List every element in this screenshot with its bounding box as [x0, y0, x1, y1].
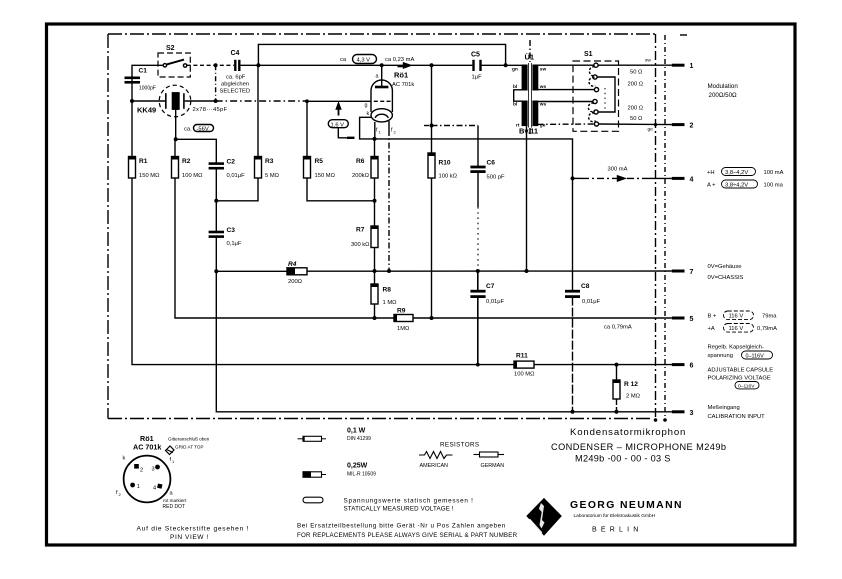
svg-text:R8: R8 [383, 287, 392, 294]
wire capsule right to grid dash-dot [185, 100, 216, 102]
svg-text:R2: R2 [182, 158, 191, 165]
svg-text:ca.: ca. [184, 127, 192, 133]
svg-text:Rö1: Rö1 [394, 71, 408, 80]
svg-text:A +: A + [707, 183, 716, 189]
wire down to R2 [174, 139, 176, 156]
svg-text:ge: ge [540, 124, 546, 129]
resistor R6 [371, 157, 378, 179]
wire down to R1 [131, 101, 133, 157]
capacitor C4 [235, 60, 239, 71]
svg-text:300 mA: 300 mA [608, 167, 628, 173]
oval 116V dashed lower [724, 324, 754, 333]
socket pins [134, 464, 139, 469]
transformer axis dash-dot [529, 40, 531, 62]
housing boundary dash-dot top [108, 33, 655, 35]
svg-text:50 Ω: 50 Ω [630, 116, 643, 122]
terminal 4 wire dash-dot with arrow [571, 176, 575, 180]
terminal 2 bar [672, 123, 685, 126]
capacitor C3 [209, 232, 224, 237]
svg-text:Regelb. Kapselgleich-: Regelb. Kapselgleich- [708, 345, 764, 351]
node R10/C6 dash junction [430, 124, 434, 128]
node R12 bottom [615, 410, 619, 414]
dash wire to C6 [424, 125, 432, 127]
svg-text:DIN 41299: DIN 41299 [347, 436, 371, 442]
svg-text:sw: sw [540, 68, 547, 73]
node C1-capsule junction [130, 99, 134, 103]
wire R3 top column [257, 65, 259, 156]
node S2/C4 wire drop [214, 63, 218, 67]
housing top-right stub dash [680, 34, 687, 36]
wire R3 bottom link [216, 178, 258, 201]
tube Ro1 envelope [371, 80, 392, 112]
node anode [380, 63, 384, 67]
svg-text:1 MΩ: 1 MΩ [383, 300, 398, 306]
svg-text:R4: R4 [288, 261, 297, 268]
legend 0,25W resistor symbol [303, 472, 326, 477]
terminal 5 bar [672, 317, 685, 320]
svg-text:ge: ge [648, 128, 654, 133]
svg-text:k: k [367, 111, 370, 117]
svg-text:ca. 6pF: ca. 6pF [226, 75, 246, 81]
svg-text:1μF: 1μF [472, 75, 483, 81]
anode plate bar [375, 86, 389, 89]
svg-text:CONDENSER – MICROPHONE M249b: CONDENSER – MICROPHONE M249b [551, 442, 726, 452]
svg-text:100 MΩ: 100 MΩ [514, 372, 535, 378]
resistor R2 [172, 157, 179, 179]
svg-text:116 V: 116 V [729, 314, 744, 320]
svg-text:0V=Gehäuse: 0V=Gehäuse [708, 264, 742, 270]
svg-text:0,01μF: 0,01μF [486, 299, 505, 305]
S1 contact circles [594, 63, 598, 67]
svg-text:100 MΩ: 100 MΩ [182, 173, 203, 179]
svg-text:k: k [123, 456, 126, 462]
capacitor C2 [209, 164, 224, 169]
svg-text:AC 701k: AC 701k [392, 82, 414, 88]
resistor R3 [255, 157, 262, 179]
housing boundary right line 1 [655, 34, 657, 420]
wire rail to R11 [478, 364, 515, 366]
svg-text:POLARIZING VOLTAGE: POLARIZING VOLTAGE [708, 376, 771, 382]
svg-text:100 ma: 100 ma [764, 183, 784, 189]
svg-text:200Ω: 200Ω [288, 279, 303, 285]
switch S1 dashed box [573, 61, 619, 131]
svg-text:C7: C7 [486, 283, 495, 290]
svg-text:Laboratorium für Elektroakus: Laboratorium für Elektroakustik GmbH [574, 513, 656, 519]
terminal 4 bar [672, 177, 685, 180]
terminal 3 bar [672, 410, 685, 413]
tube bottom ellipse [371, 109, 392, 122]
measurement oval 1,6V [328, 120, 348, 128]
node transformer rt on 0V rail [525, 269, 529, 273]
S1 link bracket [597, 77, 615, 112]
svg-text:150 MΩ: 150 MΩ [315, 173, 336, 179]
wire ws upper to S1 contact [538, 89, 595, 91]
svg-text:C1: C1 [139, 68, 148, 75]
node R7 on 0V rail [373, 269, 377, 273]
svg-text:rt: rt [516, 123, 520, 129]
wire capsule membrane down [175, 109, 177, 139]
oval 3,8-4,2V lower [722, 180, 758, 188]
svg-text:Spannungswerte statisch gemes: Spannungswerte statisch gemessen ! [344, 498, 474, 505]
oval 116V dashed [724, 311, 754, 320]
svg-text:R11: R11 [516, 353, 528, 360]
svg-text:1,6 V: 1,6 V [331, 122, 345, 128]
terminal 6 bar [672, 363, 685, 366]
svg-text:100 kΩ: 100 kΩ [439, 174, 458, 180]
svg-text:R3: R3 [265, 158, 274, 165]
heater feed column down to C8 [572, 178, 574, 290]
wire C4 to node [239, 64, 258, 66]
svg-text:a: a [376, 74, 379, 80]
C7 top wire [477, 271, 479, 291]
svg-text:CALIBRATION INPUT: CALIBRATION INPUT [708, 414, 766, 420]
resistor R4 [287, 268, 307, 275]
resistor R12 [613, 380, 620, 399]
svg-text:5 MΩ: 5 MΩ [265, 173, 280, 179]
svg-text:sw: sw [645, 59, 651, 64]
housing boundary dash-dot left [107, 34, 109, 419]
wire R2 bottom to B+ rail [175, 178, 394, 318]
node f2 on 0V rail [387, 269, 391, 273]
svg-text:ca: ca [340, 57, 347, 63]
svg-text:ws: ws [539, 85, 547, 90]
svg-text:C6: C6 [487, 160, 496, 167]
node terminal2 housing crossing [654, 123, 657, 126]
svg-text:150 MΩ: 150 MΩ [139, 173, 160, 179]
capsule KK49 dashed circle [159, 85, 191, 117]
svg-text:0,01μF: 0,01μF [227, 173, 246, 179]
node R8 on B+ rail [373, 316, 377, 320]
svg-text:1000pF: 1000pF [139, 86, 156, 92]
wire grid line to tube [307, 100, 371, 102]
capsule left electrode [165, 93, 167, 109]
C8 bottom to terminal3 rail [572, 297, 574, 412]
svg-text:1MΩ: 1MΩ [397, 326, 410, 332]
svg-text:+A: +A [708, 326, 715, 332]
svg-text:200 Ω: 200 Ω [628, 82, 644, 88]
wire column down to terminal3 rail [216, 271, 672, 412]
R10 column [431, 65, 433, 153]
svg-text:FOR REPLACEMENTS PLEASE ALWAYS: FOR REPLACEMENTS PLEASE ALWAYS GIVE SERI… [297, 532, 518, 539]
svg-text:200 Ω: 200 Ω [628, 106, 644, 112]
resistor R1 [129, 157, 136, 179]
svg-text:AMERICAN: AMERICAN [420, 463, 449, 469]
bl-bl primary bracket [514, 90, 523, 101]
svg-text:C3: C3 [227, 227, 236, 234]
svg-text:500 pF: 500 pF [487, 175, 506, 181]
grid cap connector diamond [166, 446, 175, 455]
svg-text:ca 0,23 mA: ca 0,23 mA [385, 57, 414, 63]
svg-text:PIN VIEW !: PIN VIEW ! [170, 534, 209, 541]
svg-text:AC 701k: AC 701k [133, 443, 161, 452]
wire C3 bottom to 0V rail [215, 237, 217, 272]
wire drop to capsule line dash-dot [215, 65, 217, 101]
wire S1 to terminal 2 [598, 123, 671, 126]
node C7 top on 0V rail [476, 269, 480, 273]
node C2/R3 bottom [214, 199, 218, 203]
resistor R10 [428, 153, 435, 178]
wire capsule line left [132, 100, 165, 102]
R12 top wire [616, 365, 618, 380]
arrow 1,6V measure: up arrow [338, 106, 340, 116]
oval 3,8-4,2V [722, 168, 756, 176]
resistor R8 [371, 284, 378, 304]
svg-text:GERMAN: GERMAN [481, 463, 505, 469]
legend 0,1W resistor symbol [298, 436, 327, 441]
0V rail right of R4 [307, 270, 672, 272]
heater f1 lead [374, 122, 376, 139]
node grid R5 [305, 99, 309, 103]
wire R1 bottom to rail [132, 178, 478, 365]
capacitor C7 [470, 291, 485, 296]
node R12 top [615, 363, 619, 367]
svg-text:ca 0,79mA: ca 0,79mA [604, 325, 632, 331]
svg-text:STATICALLY MEASURED VOLTAGE !: STATICALLY MEASURED VOLTAGE ! [344, 506, 454, 513]
svg-text:R1: R1 [139, 158, 148, 165]
socket outside labels [116, 456, 175, 498]
svg-text:C5: C5 [471, 52, 480, 59]
svg-text:0,25W: 0,25W [347, 463, 368, 470]
svg-text:5: 5 [690, 316, 694, 323]
svg-text:0,1 W: 0,1 W [347, 428, 366, 435]
anode lead [381, 65, 383, 86]
wire to C2 [176, 139, 217, 163]
svg-text:2x78···45pF: 2x78···45pF [193, 107, 228, 113]
capsule membrane center plate [172, 93, 179, 109]
svg-text:MIL-R 10509: MIL-R 10509 [347, 472, 376, 478]
svg-text:GRID AT TOP: GRID AT TOP [175, 445, 204, 450]
housing boundary right line 2 [664, 35, 666, 420]
svg-text:bl: bl [513, 84, 517, 90]
svg-text:116 V: 116 V [729, 326, 744, 332]
oval 0-116V [742, 351, 773, 359]
svg-text:2 MΩ: 2 MΩ [626, 394, 641, 400]
wire C1 top to S2 [132, 65, 163, 82]
svg-text:3: 3 [152, 467, 155, 473]
svg-text:RED DOT: RED DOT [163, 504, 186, 510]
svg-text:0V=CHASSIS: 0V=CHASSIS [708, 275, 744, 281]
wire S2 to C4 dashed [187, 64, 234, 66]
C6 bottom to 0V rail [477, 172, 479, 207]
terminal 1 bar [672, 64, 685, 67]
svg-text:g: g [365, 103, 368, 109]
resistor R11 inline [514, 361, 534, 368]
resistor end bands (wattage marks) [129, 153, 621, 383]
german box symbol [474, 452, 505, 457]
capacitor C6 [470, 167, 485, 172]
transformer core lines [527, 63, 529, 128]
svg-text:4: 4 [153, 486, 156, 492]
R12 bottom wire [616, 399, 618, 412]
svg-text:RESISTORS: RESISTORS [440, 442, 479, 449]
svg-text:ADJUSTABLE CAPSULE: ADJUSTABLE CAPSULE [708, 368, 774, 374]
svg-text:B +: B + [708, 314, 717, 320]
wire C5 right to transformer gn [481, 64, 523, 66]
housing boundary dash-dot bottom [108, 418, 650, 420]
svg-text:7: 7 [690, 269, 694, 276]
wire R8 bottom to B+ rail [374, 304, 376, 318]
housing line end dots [654, 418, 658, 422]
wire R5 bottom to R6 bottom [307, 178, 375, 201]
svg-text:C2: C2 [227, 159, 236, 166]
socket pin numbers [137, 467, 156, 492]
transformer U1 winding bars [522, 65, 527, 90]
svg-text:R 12: R 12 [624, 381, 638, 388]
capacitor C8 [565, 291, 580, 296]
node bridge/C5/gn [504, 63, 508, 67]
svg-text:1: 1 [137, 484, 140, 490]
legend oval symbol [303, 497, 323, 503]
S1 lower wiper arc dashed [588, 103, 595, 122]
main plate wire [258, 64, 472, 66]
svg-text:Meßeingang: Meßeingang [708, 405, 740, 411]
svg-text:C8: C8 [581, 283, 590, 290]
wire ge dash-dot to S1 [538, 123, 595, 125]
wire C1 bottom to capsule line [131, 82, 133, 101]
svg-text:ws: ws [539, 102, 547, 107]
node C7 on R11 rail [476, 363, 480, 367]
heater f2 lead dash-dot [388, 121, 390, 130]
svg-text:BERLIN: BERLIN [592, 527, 643, 534]
wire ws lower to S1 contact [538, 101, 594, 103]
arrow 0,23mA on plate wire [404, 63, 411, 68]
svg-text:KK49: KK49 [137, 106, 156, 115]
svg-text:M249b -00 - 00 - 03 S: M249b -00 - 00 - 03 S [575, 454, 671, 464]
svg-text:Ü1: Ü1 [525, 53, 535, 62]
measurement oval -56V [194, 125, 214, 132]
node cathode/f1 [373, 137, 377, 141]
american zigzag symbol [419, 452, 453, 459]
node C3 on 0V rail [214, 269, 218, 273]
R11 rail right [534, 364, 672, 366]
S1 mechanical dotted link [604, 88, 606, 110]
svg-text:0,79mA: 0,79mA [757, 326, 777, 332]
cathode rail to heater feed [375, 139, 573, 179]
svg-text:S1: S1 [584, 51, 593, 58]
R10 column lower [431, 178, 433, 318]
Neumann diamond logo [526, 498, 562, 536]
cathode lead [360, 117, 375, 139]
svg-text:rot markiert: rot markiert [163, 498, 187, 503]
svg-text:0–116V: 0–116V [738, 383, 755, 389]
svg-text:300 kΩ: 300 kΩ [351, 242, 370, 248]
resistor R5 [304, 157, 311, 179]
svg-text:-56V: -56V [197, 127, 209, 133]
S1 upper wiper arc dashed [589, 67, 595, 87]
svg-text:3: 3 [690, 410, 694, 417]
svg-text:R5: R5 [315, 158, 324, 165]
svg-text:abgleichen: abgleichen [221, 82, 249, 88]
svg-text:spannung: spannung [708, 353, 733, 359]
svg-text:+H: +H [707, 170, 715, 176]
C7 bottom to R11 rail [477, 297, 479, 365]
0V rail with R4 [216, 270, 287, 272]
wire R7 bottom to 0V rail [374, 248, 376, 272]
switch S2 box [158, 53, 190, 77]
svg-text:Gitteranschluß oben: Gitteranschluß oben [168, 437, 210, 442]
wire R6 top from cathode node [374, 139, 376, 157]
svg-text:gn: gn [512, 68, 518, 73]
svg-text:0,01μF: 0,01μF [582, 299, 601, 305]
terminal 7 bar [672, 270, 685, 273]
svg-text:50 Ω: 50 Ω [630, 70, 643, 76]
wire R6 bottom [374, 178, 376, 226]
svg-text:Bei Ersatzteilbestellung bitte: Bei Ersatzteilbestellung bitte Gerät -Nr… [297, 523, 506, 530]
wire C2 bottom [215, 168, 217, 231]
node C4 right [256, 63, 260, 67]
svg-text:Modulation: Modulation [708, 83, 739, 90]
svg-text:R9: R9 [397, 308, 406, 315]
svg-text:SELECTED: SELECTED [220, 89, 251, 95]
capacitor C5 [474, 60, 481, 71]
svg-text:2: 2 [140, 468, 143, 474]
bridge wire over tube [258, 44, 505, 65]
svg-text:4: 4 [690, 176, 694, 183]
transformer core gap [528, 62, 533, 128]
svg-text:200Ω/50Ω: 200Ω/50Ω [709, 92, 738, 99]
rt lead down to 0V rail [526, 125, 528, 271]
node R10 top [430, 63, 434, 67]
1,6V lower pointer [338, 128, 347, 138]
svg-text:S2: S2 [166, 45, 175, 52]
svg-text:100 mA: 100 mA [764, 170, 784, 176]
svg-text:6: 6 [690, 363, 694, 370]
svg-text:0,1μF: 0,1μF [227, 241, 242, 247]
svg-text:GEORG NEUMANN: GEORG NEUMANN [570, 500, 683, 511]
measurement oval 4,3V [353, 55, 377, 64]
svg-text:Auf die Steckerstifte gesehen: Auf die Steckerstifte gesehen ! [137, 526, 250, 533]
svg-text:bl: bl [513, 101, 517, 107]
grid dashes [374, 100, 391, 102]
svg-text:R6: R6 [356, 158, 365, 165]
svg-text:R7: R7 [356, 227, 365, 234]
svg-text:Bv.11: Bv.11 [519, 127, 538, 136]
capsule right electrode [183, 93, 185, 109]
node membrane junction [174, 137, 178, 141]
node R5/R6/R7 [373, 199, 377, 203]
svg-text:R10: R10 [439, 160, 451, 167]
svg-text:2: 2 [690, 123, 694, 130]
svg-text:79ma: 79ma [762, 314, 777, 320]
resistor R7 [371, 226, 378, 248]
resistor R9 inline on B+ rail [394, 315, 413, 322]
oval 0-116V lower [735, 382, 759, 389]
tube inner cathode dome [375, 114, 388, 118]
svg-text:1: 1 [690, 63, 694, 70]
B+ rail right of R9 [413, 317, 672, 319]
switch S2 contacts and arm [163, 64, 166, 67]
svg-text:4,3 V: 4,3 V [357, 57, 371, 63]
tube socket pin view circle [124, 456, 171, 503]
svg-text:200kΩ: 200kΩ [352, 173, 370, 179]
wire sw to S1 and terminal 1 [538, 64, 672, 66]
node R9/R10 column [430, 316, 434, 320]
capacitor C1 [125, 78, 141, 83]
wire R5 top [306, 101, 308, 156]
wire R8 top [374, 271, 376, 284]
svg-text:C4: C4 [231, 50, 240, 57]
svg-text:Kondensatormikrophon: Kondensatormikrophon [570, 427, 686, 438]
node C8 on terminal3 rail [571, 410, 575, 414]
